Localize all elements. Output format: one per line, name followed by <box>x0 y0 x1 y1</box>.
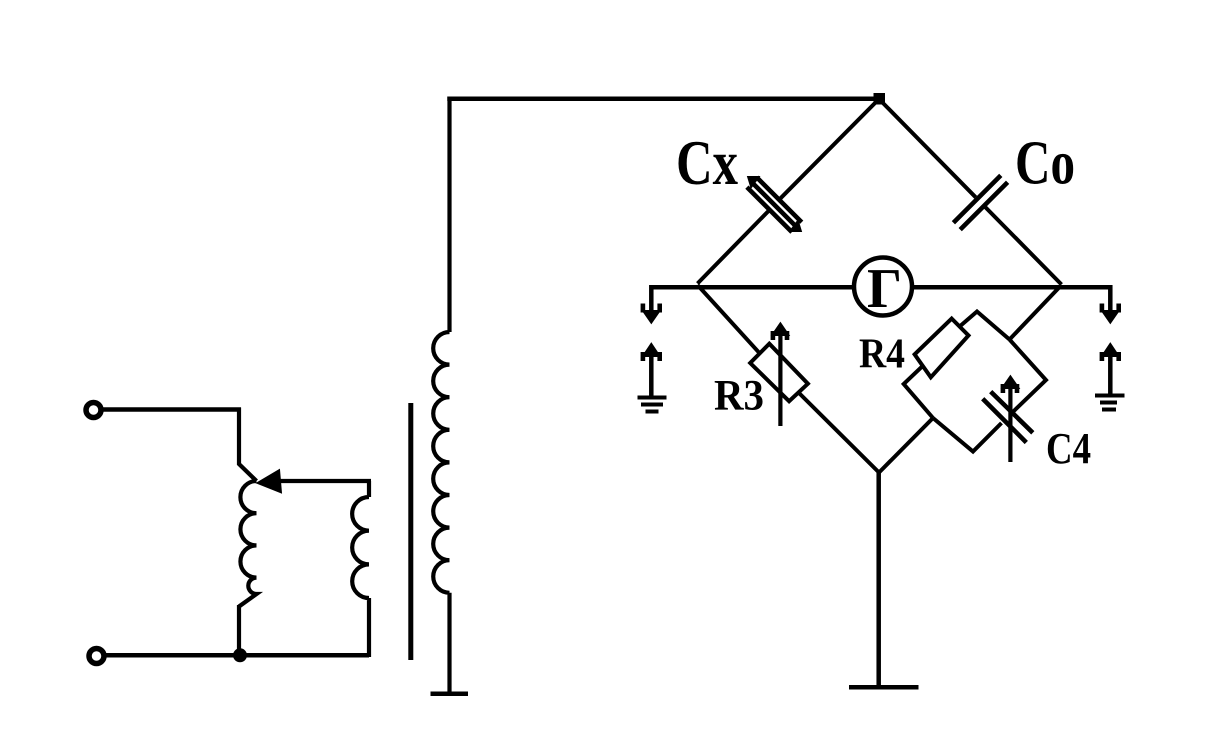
secondary winding L3 <box>433 97 449 695</box>
capacitor C4 (variable) <box>983 392 1033 443</box>
wire arm bottom-left (to R3) <box>698 285 880 473</box>
wire mid-right <box>912 285 1110 313</box>
wire mid-left <box>651 285 854 290</box>
resistor R4 <box>915 319 969 378</box>
svg-text:Г: Г <box>867 258 902 320</box>
ground (bridge bottom) <box>849 685 919 690</box>
wire rhombus upper branch <box>904 312 1010 419</box>
primary winding L2 <box>352 481 369 657</box>
wire secondary top <box>447 97 878 102</box>
shield arrow up + ground (right) <box>1101 343 1119 357</box>
wire T1 to corner <box>102 407 241 412</box>
shield arrow up + ground (left) <box>642 343 660 357</box>
wire tap lead <box>272 479 371 483</box>
junction dot <box>233 648 247 662</box>
arrow C4 (adjustable) <box>1008 382 1012 462</box>
terminal T1 (top-left input) <box>86 403 101 418</box>
galvanometer G <box>854 258 912 316</box>
wire L1 bottom to junction <box>237 605 241 655</box>
svg-text:R4: R4 <box>859 332 905 378</box>
svg-text:Co: Co <box>1015 130 1075 198</box>
core <box>408 403 413 660</box>
autotransformer winding L1 <box>239 481 257 607</box>
wire bottom rail <box>105 653 369 658</box>
wire corner down to autotransformer <box>239 408 257 482</box>
wire arm bottom-right (to R4/C4) <box>1010 285 1062 340</box>
capacitor Co <box>953 175 1007 229</box>
node A (bridge top node) <box>874 93 886 105</box>
ground (secondary) <box>431 692 469 697</box>
terminal T2 (bottom-left input) <box>89 649 104 664</box>
shield arrow down (right) <box>1101 311 1119 324</box>
arrow R3 (adjustable) <box>778 329 782 426</box>
capacitor Cx (variable) <box>747 177 802 232</box>
wire main arm to bottom node <box>879 418 933 473</box>
wire bottom node down <box>876 470 881 687</box>
resistor R3 <box>750 344 808 402</box>
ground (left) <box>638 398 667 412</box>
wire arm top-right (to Co) <box>880 100 1062 285</box>
wire arm top-left (to Cx) <box>698 100 879 284</box>
tap arrow <box>257 470 282 494</box>
svg-text:C4: C4 <box>1046 424 1091 473</box>
svg-text:R3: R3 <box>714 373 764 420</box>
shield arrow down (left) <box>649 285 654 312</box>
svg-text:Cx: Cx <box>676 128 738 198</box>
ground (right) <box>1095 396 1125 410</box>
wire rhombus lower branch <box>933 340 1046 452</box>
